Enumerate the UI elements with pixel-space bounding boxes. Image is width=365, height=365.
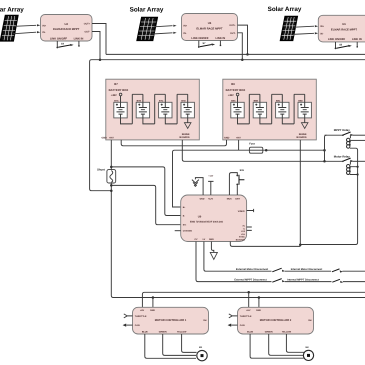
node +48V battery box B7 — [111, 93, 122, 97]
battery box B7 — [102, 79, 200, 140]
wire B8 +HV down to fuse line — [238, 140, 240, 150]
ground arrow in battery box B7 — [184, 123, 191, 129]
node junction relay common bottom — [323, 160, 326, 163]
switch internal MPPT disconnect — [332, 279, 343, 283]
svg-text:OUT+: OUT+ — [84, 23, 91, 26]
solar array 1 panel — [1, 16, 18, 41]
svg-text:+48V: +48V — [111, 94, 117, 97]
svg-text:B7: B7 — [114, 83, 118, 86]
svg-text:GREEN: GREEN — [265, 330, 273, 333]
switch S15 — [229, 169, 244, 195]
wire EMS pin B+ up and right to fuse — [173, 150, 250, 207]
svg-text:VIDEO: VIDEO — [238, 210, 245, 213]
wire U4 OUT- to negative bus — [92, 32, 100, 60]
svg-text:LINK IN: LINK IN — [74, 38, 84, 41]
wire MPPT disconnect middle — [285, 281, 332, 283]
switch S5 — [335, 42, 358, 49]
wire B7 SENSE BOARDS to relay drive — [182, 140, 324, 161]
wire EMS VIDEO stub — [247, 209, 254, 212]
node junction relay common — [323, 149, 326, 152]
svg-text:YELLOW: YELLOW — [177, 330, 187, 333]
switch external MPPT disconnect — [272, 279, 285, 283]
svg-text:+12V: +12V — [208, 197, 214, 200]
motor M2 — [303, 346, 313, 360]
node junction MC2 +HV on bus — [247, 291, 250, 294]
svg-text:MPPT Relay: MPPT Relay — [334, 128, 350, 132]
svg-text:B8: B8 — [231, 83, 235, 86]
svg-text:External Motor Disconnect: External Motor Disconnect — [236, 268, 268, 271]
wire U5 OUT+ to positive bus — [238, 25, 248, 54]
battery cell B7A — [114, 99, 127, 118]
svg-text:BOARDS: BOARDS — [180, 136, 190, 139]
positive bus wire — [106, 53, 365, 55]
svg-text:THROTTLE: THROTTLE — [240, 315, 252, 318]
shunt R1 — [97, 168, 116, 183]
svg-text:S15: S15 — [240, 169, 245, 172]
wire EMS LV to motor disconnect row — [204, 242, 272, 272]
wire MC2 green phase — [269, 334, 304, 355]
node junction MC1 GND on bus — [152, 296, 155, 299]
node junction above shunt — [110, 166, 113, 169]
solar array 2 panel — [137, 18, 157, 41]
svg-text:Fuse: Fuse — [249, 143, 255, 146]
svg-text:BOARDS: BOARDS — [236, 238, 246, 241]
wire panel2 to U5 IN- — [152, 32, 176, 34]
svg-text:LINK ON/OFF: LINK ON/OFF — [191, 37, 209, 40]
svg-text:Internal Motor Disconnect: Internal Motor Disconnect — [291, 268, 323, 271]
svg-text:LINK ON/OFF: LINK ON/OFF — [328, 38, 346, 41]
svg-text:CAN: CAN — [135, 324, 140, 327]
label external motor disconnect — [236, 268, 268, 271]
svg-text:LINK ON/OFF: LINK ON/OFF — [50, 38, 68, 41]
ground arrow in battery box B8 — [301, 123, 308, 129]
svg-text:EMS 72V/600A/45XF 300A 266: EMS 72V/600A/45XF 300A 266 — [190, 221, 224, 224]
solar array 2 label — [130, 7, 164, 14]
battery cell B7B — [136, 99, 149, 118]
wire EMS serial stubs — [247, 227, 252, 230]
wire B7 +HV to B8 GND series link — [121, 140, 226, 146]
wire MC1 blue phase — [145, 334, 196, 358]
motor M1 — [197, 346, 207, 361]
wire MC2 +HV drop — [248, 292, 250, 307]
svg-text:+12V: +12V — [208, 174, 213, 177]
svg-text:SW: SW — [203, 319, 206, 322]
wire B7 series links — [121, 94, 188, 124]
wire shunt bottom to EMS pin SH — [111, 185, 180, 224]
svg-text:Motor Relay: Motor Relay — [334, 154, 350, 158]
svg-text:B-: B- — [183, 214, 186, 217]
solar array 3 panel — [281, 17, 298, 41]
svg-text:SENSE: SENSE — [299, 133, 307, 136]
svg-text:BOARDS: BOARDS — [297, 136, 307, 139]
node junction MC2 GND on bus — [258, 296, 261, 299]
fuse F1 — [249, 143, 263, 154]
svg-text:IN-: IN- — [184, 32, 187, 35]
svg-text:OUT-: OUT- — [230, 32, 236, 35]
switch S4 — [56, 41, 79, 48]
label internal MPPT disconnect — [287, 278, 319, 281]
wire MPPT relay coil to sense return — [300, 148, 357, 244]
svg-text:LINK IN: LINK IN — [352, 38, 362, 41]
motor controller 2 — [238, 307, 314, 334]
MPPT U4 — [41, 15, 93, 42]
wire EMS CV to MPPT disconnect row — [196, 242, 272, 282]
svg-text:BLUE: BLUE — [247, 330, 253, 333]
switch external motor disconnect — [272, 268, 285, 272]
wire EMS SYNC BOARDS to sense net — [230, 242, 300, 247]
power +12V symbol above EMS — [208, 174, 214, 195]
svg-text:Solar Array: Solar Array — [130, 7, 164, 14]
svg-text:BATTERY BOX: BATTERY BOX — [109, 88, 129, 92]
CAN arrow MC2 — [228, 324, 238, 327]
svg-text:U9: U9 — [198, 215, 202, 218]
wire MC2 blue phase — [250, 334, 304, 358]
CAN arrow MC1 — [123, 324, 133, 327]
wire MC2 GND drop — [258, 298, 260, 308]
svg-text:MOTOR CONTROLLER 1: MOTOR CONTROLLER 1 — [155, 319, 187, 322]
svg-text:SENSE: SENSE — [182, 133, 190, 136]
wire panel1 to U4 IN+ — [15, 24, 41, 26]
svg-text:U5: U5 — [208, 22, 212, 25]
wire panel3 to U6 IN- — [293, 32, 318, 34]
svg-text:ELMAR RACE MPPT: ELMAR RACE MPPT — [53, 28, 79, 31]
wire U5 OUT- to negative bus — [238, 33, 243, 60]
svg-text:+HV: +HV — [246, 309, 251, 312]
node junction U5 OUT+ on positive bus — [246, 53, 249, 56]
solar array 3 label — [268, 6, 302, 13]
svg-text:GND: GND — [224, 137, 230, 140]
svg-text:Solar Array: Solar Array — [268, 6, 302, 13]
wire B8 SENSE BOARDS down — [299, 140, 301, 247]
svg-text:YELLOW: YELLOW — [282, 330, 292, 333]
svg-text:CHASSIS: CHASSIS — [183, 229, 193, 232]
wire panel1 to U4 IN- — [13, 31, 41, 34]
wire MC1 yellow phase — [182, 334, 197, 352]
wire motor disconnect middle — [285, 270, 331, 272]
throttle arrow MC2 — [229, 314, 238, 318]
node junction fuse output — [265, 149, 268, 152]
svg-text:GNT: GNT — [235, 197, 240, 200]
svg-text:MUX: MUX — [227, 197, 232, 200]
svg-text:GND: GND — [150, 309, 155, 312]
svg-text:MOTOR CONTROLLER 2: MOTOR CONTROLLER 2 — [260, 319, 292, 322]
battery cell B7C — [159, 99, 172, 118]
+HV bus wire — [142, 292, 365, 307]
svg-text:OUT-: OUT- — [85, 31, 91, 34]
EMS U9 — [181, 195, 247, 242]
MPPT U6 — [318, 15, 365, 42]
node junction below shunt — [110, 184, 113, 187]
battery cell B8C — [276, 99, 289, 118]
wire panel2 to U5 IN+ — [154, 25, 177, 27]
node junction U5 OUT- on negative bus — [241, 58, 244, 61]
ground chassis symbol above EMS — [192, 178, 203, 195]
svg-text:IN+: IN+ — [320, 25, 324, 28]
svg-text:THROTTLE: THROTTLE — [135, 315, 147, 318]
svg-text:Solar Array: Solar Array — [0, 7, 24, 14]
node junction negative loop at shunt — [110, 189, 113, 192]
svg-text:OUT+: OUT+ — [229, 24, 236, 27]
node junction sense sync — [299, 244, 302, 247]
svg-text:External MPPT Disconnect: External MPPT Disconnect — [234, 278, 266, 281]
svg-text:Internal MPPT Disconnect: Internal MPPT Disconnect — [287, 278, 319, 281]
svg-text:CAN: CAN — [240, 324, 245, 327]
svg-text:U4: U4 — [64, 23, 68, 26]
negative bus wire — [90, 60, 365, 191]
wire EMS CHASSIS stub — [175, 230, 181, 232]
svg-text:SW: SW — [308, 319, 311, 322]
battery cell B8A — [231, 99, 244, 118]
svg-text:GND: GND — [256, 309, 261, 312]
wire panel3 to U6 IN+ — [295, 25, 319, 27]
svg-text:CV: CV — [194, 238, 198, 241]
wire shunt top to EMS pin B- — [111, 167, 180, 216]
wire motor disconnect to edge — [343, 270, 365, 272]
svg-text:GND: GND — [209, 238, 214, 241]
battery cell B7D — [181, 99, 194, 118]
svg-text:SYNC: SYNC — [239, 236, 245, 239]
svg-text:+HV: +HV — [109, 137, 114, 140]
battery cell B8D — [298, 99, 311, 118]
wire MPPT disconnect to edge — [343, 281, 365, 283]
battery box B8 — [223, 79, 316, 140]
motor relay K2 — [325, 154, 365, 175]
wire MC2 yellow phase — [286, 334, 304, 352]
svg-text:ELMAR RACE MPPT: ELMAR RACE MPPT — [196, 27, 222, 30]
svg-text:U6: U6 — [342, 23, 346, 26]
MPPT relay K1 — [325, 128, 365, 148]
svg-text:Shunt: Shunt — [97, 168, 105, 171]
svg-text:GND: GND — [200, 197, 205, 200]
wire B8 series links — [238, 94, 305, 124]
wire B7 GND down through shunt to ground bus — [111, 140, 365, 298]
wire MC1 GND drop — [152, 298, 154, 308]
svg-text:SH-: SH- — [183, 224, 187, 227]
svg-text:BATTERY BOX: BATTERY BOX — [226, 88, 246, 92]
svg-text:IN-: IN- — [43, 31, 46, 34]
label internal motor disconnect — [291, 268, 323, 271]
svg-text:ELMAR RACE MPPT: ELMAR RACE MPPT — [331, 28, 357, 31]
svg-text:LINK IN: LINK IN — [216, 37, 226, 40]
wire MC1 green phase — [163, 334, 196, 355]
svg-text:+HV: +HV — [236, 137, 241, 140]
svg-text:IN-: IN- — [320, 32, 323, 35]
svg-text:GND: GND — [102, 137, 108, 140]
svg-text:+48V: +48V — [228, 94, 234, 97]
motor controller 1 — [133, 307, 209, 334]
wire EMS GND to earth arrow — [210, 242, 217, 260]
throttle arrow MC1 — [124, 314, 133, 318]
svg-text:VSA: VSA — [241, 233, 246, 236]
switch internal motor disconnect — [332, 269, 343, 273]
svg-text:BLUE: BLUE — [142, 330, 148, 333]
switch S7 — [198, 41, 221, 48]
wire relay common vertical — [325, 135, 327, 161]
battery cell B8B — [253, 99, 266, 118]
node junction U4 OUT- on negative bus — [99, 58, 102, 61]
svg-text:GREEN: GREEN — [159, 330, 167, 333]
wire fuse to relay common — [263, 149, 325, 151]
MPPT U5 — [182, 14, 238, 41]
svg-text:+HV: +HV — [140, 309, 145, 312]
wire U4 OUT+ to positive bus — [92, 24, 106, 55]
label external MPPT disconnect — [234, 278, 266, 281]
node +48V battery box B8 — [228, 93, 239, 97]
solar array 1 label — [0, 7, 24, 14]
